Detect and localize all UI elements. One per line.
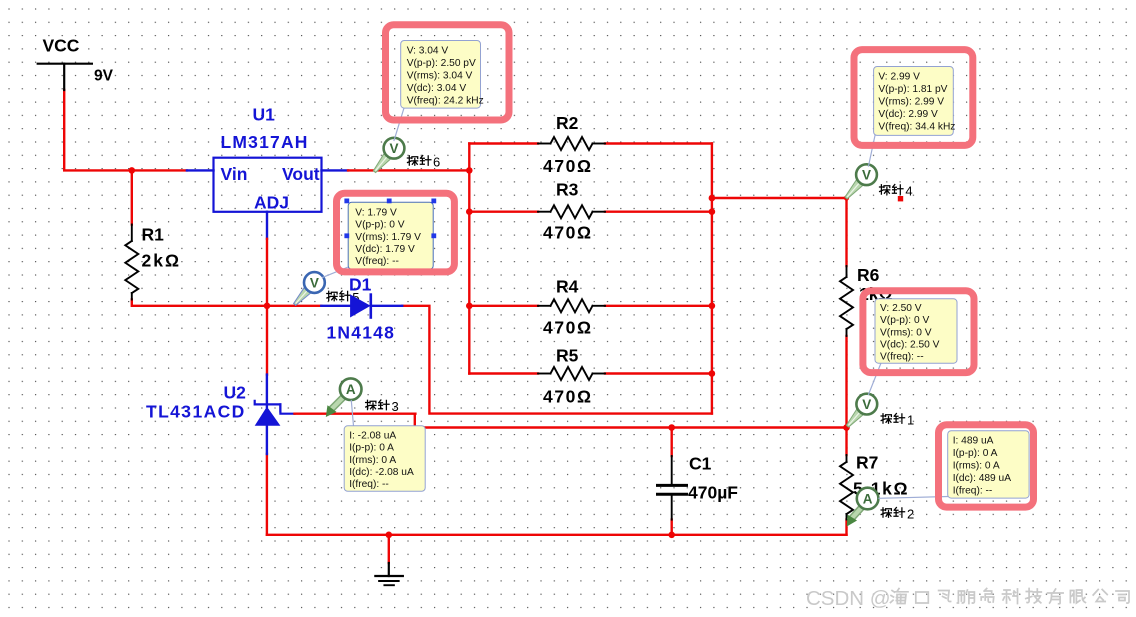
capacitor C1 — [658, 454, 739, 520]
diode D1 1N4148 — [321, 275, 402, 343]
probe V 探针6 — [371, 138, 404, 175]
svg-text:V(p-p): 2.50 pV: V(p-p): 2.50 pV — [407, 58, 476, 69]
svg-text:R1: R1 — [142, 225, 165, 245]
node probe4 corner — [844, 195, 849, 200]
probe label 探针3 — [366, 399, 399, 414]
svg-text:V(rms): 3.04 V: V(rms): 3.04 V — [407, 70, 473, 81]
svg-text:470Ω: 470Ω — [543, 387, 593, 407]
measurement box probe6 values — [401, 41, 484, 109]
wire U2 cathode up to ADJ node — [266, 306, 268, 375]
svg-text:R7: R7 — [856, 453, 878, 473]
measurement box probe4 values — [874, 67, 956, 136]
svg-text:D1: D1 — [349, 275, 372, 295]
svg-text:R4: R4 — [556, 277, 579, 297]
wire D1 cathode then down and right to output bus — [402, 306, 712, 414]
power VCC symbol — [38, 36, 114, 91]
node ADJ/R1/D1/U2 junction — [264, 303, 271, 310]
svg-text:TL431ACD: TL431ACD — [146, 402, 246, 422]
probe label 探针4 — [880, 184, 913, 199]
svg-text:V: V — [862, 397, 871, 412]
measurement box probe3 values — [344, 426, 425, 492]
svg-text:9V: 9V — [94, 68, 114, 85]
wire ADJ stub to node — [266, 239, 268, 306]
svg-text:V(freq): 24.2 kHz: V(freq): 24.2 kHz — [407, 95, 484, 106]
svg-text:V: 3.04 V: V: 3.04 V — [407, 45, 449, 56]
svg-text:ADJ: ADJ — [254, 193, 289, 213]
svg-text:I: -2.08 uA: I: -2.08 uA — [349, 430, 396, 441]
wire U2 anode down to ground bus — [266, 454, 268, 535]
wire R7 bottom lead — [845, 520, 847, 535]
svg-text:6: 6 — [433, 155, 440, 170]
wire R5 row right — [605, 372, 712, 374]
svg-text:V(freq): --: V(freq): -- — [880, 352, 924, 363]
svg-text:A: A — [346, 382, 356, 397]
svg-text:3: 3 — [392, 399, 399, 414]
wire left bus — [468, 144, 470, 374]
svg-text:V: 1.79 V: V: 1.79 V — [355, 207, 397, 218]
wire ground stem — [388, 535, 390, 563]
probe label 探针5 — [327, 290, 360, 305]
svg-text:470Ω: 470Ω — [543, 223, 593, 243]
wire R1 top branch — [131, 170, 133, 224]
wire R3 row left — [469, 210, 538, 212]
highlight rect around probe5 box — [337, 193, 455, 272]
leader probe3 to box — [351, 401, 353, 426]
svg-text:V(rms): 0 V: V(rms): 0 V — [880, 327, 932, 338]
wire Vout to left bus — [348, 169, 469, 171]
wire Vin pin stub (blue) — [187, 169, 214, 171]
wire R4 row left — [469, 305, 538, 307]
wire R4 row right — [605, 305, 712, 307]
svg-text:V(rms): 1.79 V: V(rms): 1.79 V — [355, 232, 421, 243]
svg-text:V(dc): 3.04 V: V(dc): 3.04 V — [407, 83, 467, 94]
svg-text:R2: R2 — [556, 113, 579, 133]
svg-text:V(freq): --: V(freq): -- — [355, 256, 399, 267]
resistor R5 — [538, 346, 605, 407]
node Vout/left-bus junction — [466, 167, 473, 174]
resistor R7 — [840, 453, 909, 520]
node probe4 wire-end marker — [898, 196, 903, 201]
wire U2 ref stub (blue) — [280, 404, 294, 413]
measurement box probe1 values — [875, 299, 957, 363]
svg-text:V(p-p): 0 V: V(p-p): 0 V — [880, 315, 929, 326]
leader probe6 to box — [394, 108, 404, 141]
svg-text:R6: R6 — [857, 265, 880, 285]
wire C1 bottom lead — [671, 520, 673, 535]
svg-text:R5: R5 — [556, 346, 579, 366]
svg-text:I: 489 uA: I: 489 uA — [953, 435, 994, 446]
node left-bus/R3 junction — [466, 208, 473, 215]
svg-text:2: 2 — [907, 507, 914, 522]
probe label 探针1 — [881, 413, 914, 428]
wire ADJ pin stub (blue) — [266, 212, 268, 239]
svg-text:V: V — [862, 168, 871, 183]
svg-text:R3: R3 — [556, 180, 579, 200]
svg-text:V: V — [310, 275, 319, 290]
probe A 探针2 — [847, 488, 879, 527]
wire R1 bottom to ADJ node — [132, 300, 267, 306]
svg-text:V: V — [389, 141, 398, 156]
wire probe1 row (C1 top row) — [415, 426, 847, 428]
svg-text:I(dc): 489 uA: I(dc): 489 uA — [953, 473, 1012, 484]
svg-text:U2: U2 — [224, 383, 247, 403]
wire R6 bottom to probe1 node — [845, 336, 847, 428]
svg-text:I(p-p): 0 A: I(p-p): 0 A — [953, 448, 998, 459]
probe V 探针5 (selected) — [291, 272, 324, 308]
wire R2 row right — [605, 142, 712, 144]
highlight rect around probe6 box — [386, 25, 510, 120]
op-amp U1 LM317AH regulator box — [214, 105, 322, 213]
wire R7 top lead — [845, 428, 847, 456]
node right-bus/R4 junction — [709, 303, 716, 310]
selection handles of probe5 box — [344, 199, 436, 274]
svg-text:I(rms): 0 A: I(rms): 0 A — [953, 460, 1000, 471]
node ground junction — [386, 532, 393, 539]
svg-text:470µF: 470µF — [688, 483, 738, 503]
probe label 探针6 — [407, 155, 440, 170]
svg-text:470Ω: 470Ω — [543, 156, 593, 176]
node right-bus/R3 junction — [709, 208, 716, 215]
wire bottom ground bus — [267, 534, 847, 536]
transistor U2 TL431ACD shunt reference — [146, 375, 280, 454]
svg-text:Vout: Vout — [282, 164, 320, 184]
svg-text:4: 4 — [905, 184, 912, 199]
ground — [375, 563, 402, 585]
svg-text:470Ω: 470Ω — [543, 318, 593, 338]
highlight rect around probe2 box — [939, 425, 1034, 507]
node right-bus/probe4 row junction — [709, 195, 716, 202]
svg-text:A: A — [863, 491, 873, 506]
svg-text:V: 2.50 V: V: 2.50 V — [880, 303, 922, 314]
svg-text:VCC: VCC — [43, 36, 80, 56]
resistor R2 — [538, 113, 605, 176]
svg-text:I(freq): --: I(freq): -- — [349, 479, 389, 490]
probe V 探针4 — [843, 164, 877, 201]
svg-text:V(p-p): 0 V: V(p-p): 0 V — [355, 220, 404, 231]
wire Vout pin stub (blue) — [322, 169, 349, 171]
node C1 bottom junction — [668, 532, 675, 539]
wire R5 row left — [469, 372, 538, 374]
leader probe5 to box — [323, 267, 349, 278]
watermark CSDN — [806, 587, 1129, 610]
probe V 探针1 — [844, 394, 877, 430]
measurement box probe2 values — [948, 431, 1029, 498]
svg-text:V(rms): 2.99 V: V(rms): 2.99 V — [878, 96, 944, 107]
resistor R4 — [538, 277, 605, 338]
resistor R1 — [125, 225, 181, 300]
svg-text:2kΩ: 2kΩ — [142, 251, 182, 271]
node R6/probe1 junction — [843, 424, 850, 431]
svg-text:1: 1 — [907, 413, 914, 428]
svg-text:V(dc): 1.79 V: V(dc): 1.79 V — [355, 244, 415, 255]
wire output row to probe4 corner and down to R6 — [712, 198, 847, 266]
svg-text:V(dc): 2.50 V: V(dc): 2.50 V — [880, 340, 940, 351]
probe label 探针2 — [881, 507, 914, 522]
svg-text:V(p-p): 1.81 pV: V(p-p): 1.81 pV — [878, 84, 947, 95]
wire ADJ node to D1 anode — [267, 305, 321, 307]
svg-text:Vin: Vin — [221, 164, 248, 184]
svg-text:1N4148: 1N4148 — [327, 323, 396, 343]
leader probe2 to box — [879, 497, 948, 499]
leader probe4 to box — [869, 135, 876, 166]
highlight rect around probe1 box — [863, 291, 974, 373]
svg-text:I(rms): 0 A: I(rms): 0 A — [349, 455, 396, 466]
wire VCC stem to Vin row — [64, 90, 187, 170]
node R1/Vin junction — [129, 167, 136, 174]
resistor R3 — [538, 180, 605, 243]
highlight rect around probe4 box — [854, 50, 973, 146]
svg-text:I(p-p): 0 A: I(p-p): 0 A — [349, 443, 394, 454]
svg-text:LM317AH: LM317AH — [221, 132, 309, 152]
node C1 top junction — [668, 424, 675, 431]
wire R2 row left — [469, 142, 538, 144]
wire C1 top lead — [671, 428, 673, 457]
resistor R6 — [840, 265, 893, 336]
svg-text:V(dc): 2.99 V: V(dc): 2.99 V — [878, 109, 938, 120]
svg-text:U1: U1 — [253, 105, 276, 125]
svg-text:V(freq): 34.4 kHz: V(freq): 34.4 kHz — [878, 121, 955, 132]
svg-text:C1: C1 — [689, 454, 712, 474]
wire U2 ref to probe3 corner — [295, 414, 416, 428]
svg-text:V: 2.99 V: V: 2.99 V — [878, 71, 920, 82]
svg-text:I(dc): -2.08 uA: I(dc): -2.08 uA — [349, 467, 414, 478]
measurement box probe5 values (selected) — [348, 202, 433, 269]
svg-text:I(freq): --: I(freq): -- — [953, 485, 993, 496]
node right-bus/R5 junction — [709, 370, 716, 377]
wire R3 row right — [605, 210, 712, 212]
leader probe1 to box — [869, 363, 882, 395]
wire right bus — [711, 144, 713, 414]
node left-bus/R4 junction — [466, 303, 473, 310]
probe A 探针3 — [326, 378, 362, 417]
svg-text:CSDN @: CSDN @ — [806, 587, 891, 610]
